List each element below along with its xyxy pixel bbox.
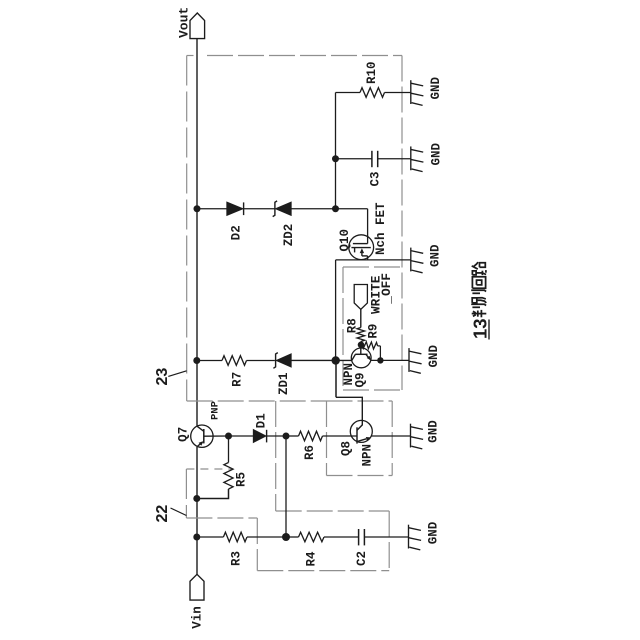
- capacitor C2: [358, 529, 360, 545]
- diode D1: [254, 430, 266, 442]
- block boundary connector: [275, 401, 277, 511]
- svg-text:R6: R6: [303, 445, 317, 460]
- resistor R4: [299, 532, 325, 542]
- resistor R8: [357, 328, 365, 342]
- wire main rail Vout-Vin: [196, 39, 198, 426]
- ground for Q9: [409, 348, 422, 373]
- svg-text:GND: GND: [427, 521, 441, 544]
- transistor Q7 PNP: [191, 425, 213, 447]
- ground for R10: [411, 80, 424, 105]
- wire D1 to node: [267, 435, 286, 437]
- label 23 leader line: [168, 371, 186, 377]
- underline of 13: [488, 320, 490, 340]
- wire R7 to ZD1: [247, 360, 275, 362]
- label kanji 回: [472, 277, 485, 289]
- svg-text:GND: GND: [427, 420, 441, 443]
- svg-text:R10: R10: [365, 61, 379, 84]
- wire rail to R7: [197, 360, 222, 362]
- node junction Q7 base / D1 / R5: [225, 433, 232, 440]
- svg-text:NPN: NPN: [361, 444, 375, 467]
- resistor R7: [222, 356, 247, 366]
- terminal Vin: [190, 574, 204, 600]
- wire D1 node down to R4 node: [285, 436, 287, 537]
- svg-text:D1: D1: [255, 413, 269, 428]
- svg-text:GND: GND: [429, 244, 443, 267]
- zener diode ZD2: [273, 201, 277, 217]
- svg-text:23: 23: [154, 368, 171, 386]
- svg-text:22: 22: [154, 505, 171, 523]
- wire node to D1: [229, 435, 254, 437]
- wire Q8 emitter to ground: [371, 435, 411, 437]
- svg-text:Vout: Vout: [177, 7, 192, 38]
- wire Q9 emitter to ground: [371, 359, 409, 361]
- terminal WRITE_OFF: [354, 285, 367, 310]
- resistor R3: [223, 532, 247, 542]
- svg-text:R5: R5: [235, 472, 249, 487]
- label 22 leader line: [171, 508, 187, 516]
- wire node to R6: [286, 435, 299, 437]
- diode D2: [227, 202, 243, 215]
- node junction Q9 emitter/R9: [377, 357, 383, 363]
- wire C3 to ground: [378, 158, 411, 160]
- terminal Vout: [190, 13, 205, 39]
- svg-text:C3: C3: [369, 171, 383, 186]
- wire R3 to node: [247, 536, 286, 538]
- label kanji 別: [471, 290, 486, 303]
- node junction D2/ZD2/C3/Q10: [332, 205, 339, 212]
- wire to R10: [336, 92, 361, 94]
- zener diode ZD1: [273, 353, 277, 369]
- block 22 boundary box: [186, 468, 233, 470]
- svg-text:R8: R8: [346, 318, 360, 333]
- block box around R4 C2: [276, 510, 390, 512]
- wire node up to R10/C3: [335, 93, 337, 209]
- transistor Q10 Nch FET: [349, 235, 374, 260]
- rotated text layer: [154, 7, 491, 629]
- wire R5 to rail: [197, 489, 229, 499]
- ground for Q10: [411, 248, 424, 273]
- svg-text:C2: C2: [355, 551, 369, 566]
- wire Q7 base to node: [204, 435, 229, 437]
- svg-text:R3: R3: [230, 551, 244, 566]
- wire Q10 source/gate line to ground: [336, 259, 411, 261]
- svg-text:GND: GND: [427, 344, 441, 367]
- node junction R3/R4/D1-tap: [282, 533, 290, 541]
- wire node to Q10 drain: [336, 208, 368, 210]
- resistor R6: [299, 431, 323, 441]
- block 23 boundary box: [187, 55, 194, 57]
- svg-text:R4: R4: [305, 551, 319, 567]
- wire R4 to C2: [324, 536, 359, 538]
- wire ZD2 to node: [291, 208, 336, 210]
- label kanji 判: [471, 304, 486, 317]
- wire to C3: [336, 158, 372, 160]
- wire R8 to Q9 base: [360, 342, 362, 355]
- ground for C2: [409, 525, 422, 550]
- wire R10 to ground: [385, 92, 411, 94]
- wire terminal to R8: [360, 309, 362, 327]
- node junction R5 on rail: [193, 495, 200, 502]
- svg-text:Q7: Q7: [177, 427, 191, 442]
- wire Q8 collector to node: [335, 361, 337, 398]
- block box around Q9 region: [343, 266, 402, 268]
- transistor Q8 NPN: [350, 420, 372, 442]
- wire node down to R5: [228, 436, 230, 463]
- node junction R9 tap: [358, 342, 365, 349]
- capacitor C3: [371, 151, 373, 167]
- wire C2 to ground: [364, 536, 408, 538]
- wire rail to R3: [197, 536, 223, 538]
- svg-text:Q8: Q8: [340, 441, 354, 456]
- svg-text:R9: R9: [367, 324, 381, 339]
- svg-text:ZD2: ZD2: [282, 224, 296, 247]
- ground for Q8: [411, 424, 424, 449]
- svg-text:13: 13: [470, 318, 491, 339]
- node junction on rail at D2 branch: [194, 205, 201, 212]
- svg-text:Q9: Q9: [354, 372, 368, 387]
- node junction C3 tap: [332, 155, 339, 162]
- block box around Q8: [327, 400, 393, 402]
- svg-text:Nch FET: Nch FET: [374, 202, 388, 255]
- svg-text:R7: R7: [231, 372, 245, 387]
- label kanji 路: [472, 262, 486, 275]
- wire D2 to ZD2: [244, 208, 275, 210]
- node junction R3 on rail: [193, 534, 200, 541]
- resistor R9: [362, 342, 377, 349]
- wire R6 to Q8 base: [323, 435, 358, 437]
- resistor R10: [360, 88, 385, 98]
- svg-text:GND: GND: [429, 76, 443, 99]
- node junction Q10/Q9/Q8 collectors: [332, 356, 340, 364]
- svg-text:GND: GND: [430, 142, 444, 165]
- svg-text:D2: D2: [230, 225, 244, 240]
- node junction D1 / R6 / R4 tap: [283, 433, 290, 440]
- svg-text:PNP: PNP: [210, 401, 222, 420]
- resistor R5: [224, 463, 233, 490]
- node junction on rail at R7 branch: [193, 357, 200, 364]
- wire Q10 source down to Q9 collector node: [335, 260, 337, 361]
- wire ZD1 to node: [291, 359, 352, 361]
- wire rail to D2: [197, 208, 227, 210]
- svg-text:_OFF: _OFF: [379, 273, 394, 305]
- svg-text:ZD1: ZD1: [277, 372, 291, 395]
- ground for C3: [411, 146, 424, 171]
- svg-text:Vin: Vin: [191, 606, 205, 629]
- transistor Q9 NPN: [351, 348, 371, 368]
- svg-text:Q10: Q10: [338, 229, 352, 252]
